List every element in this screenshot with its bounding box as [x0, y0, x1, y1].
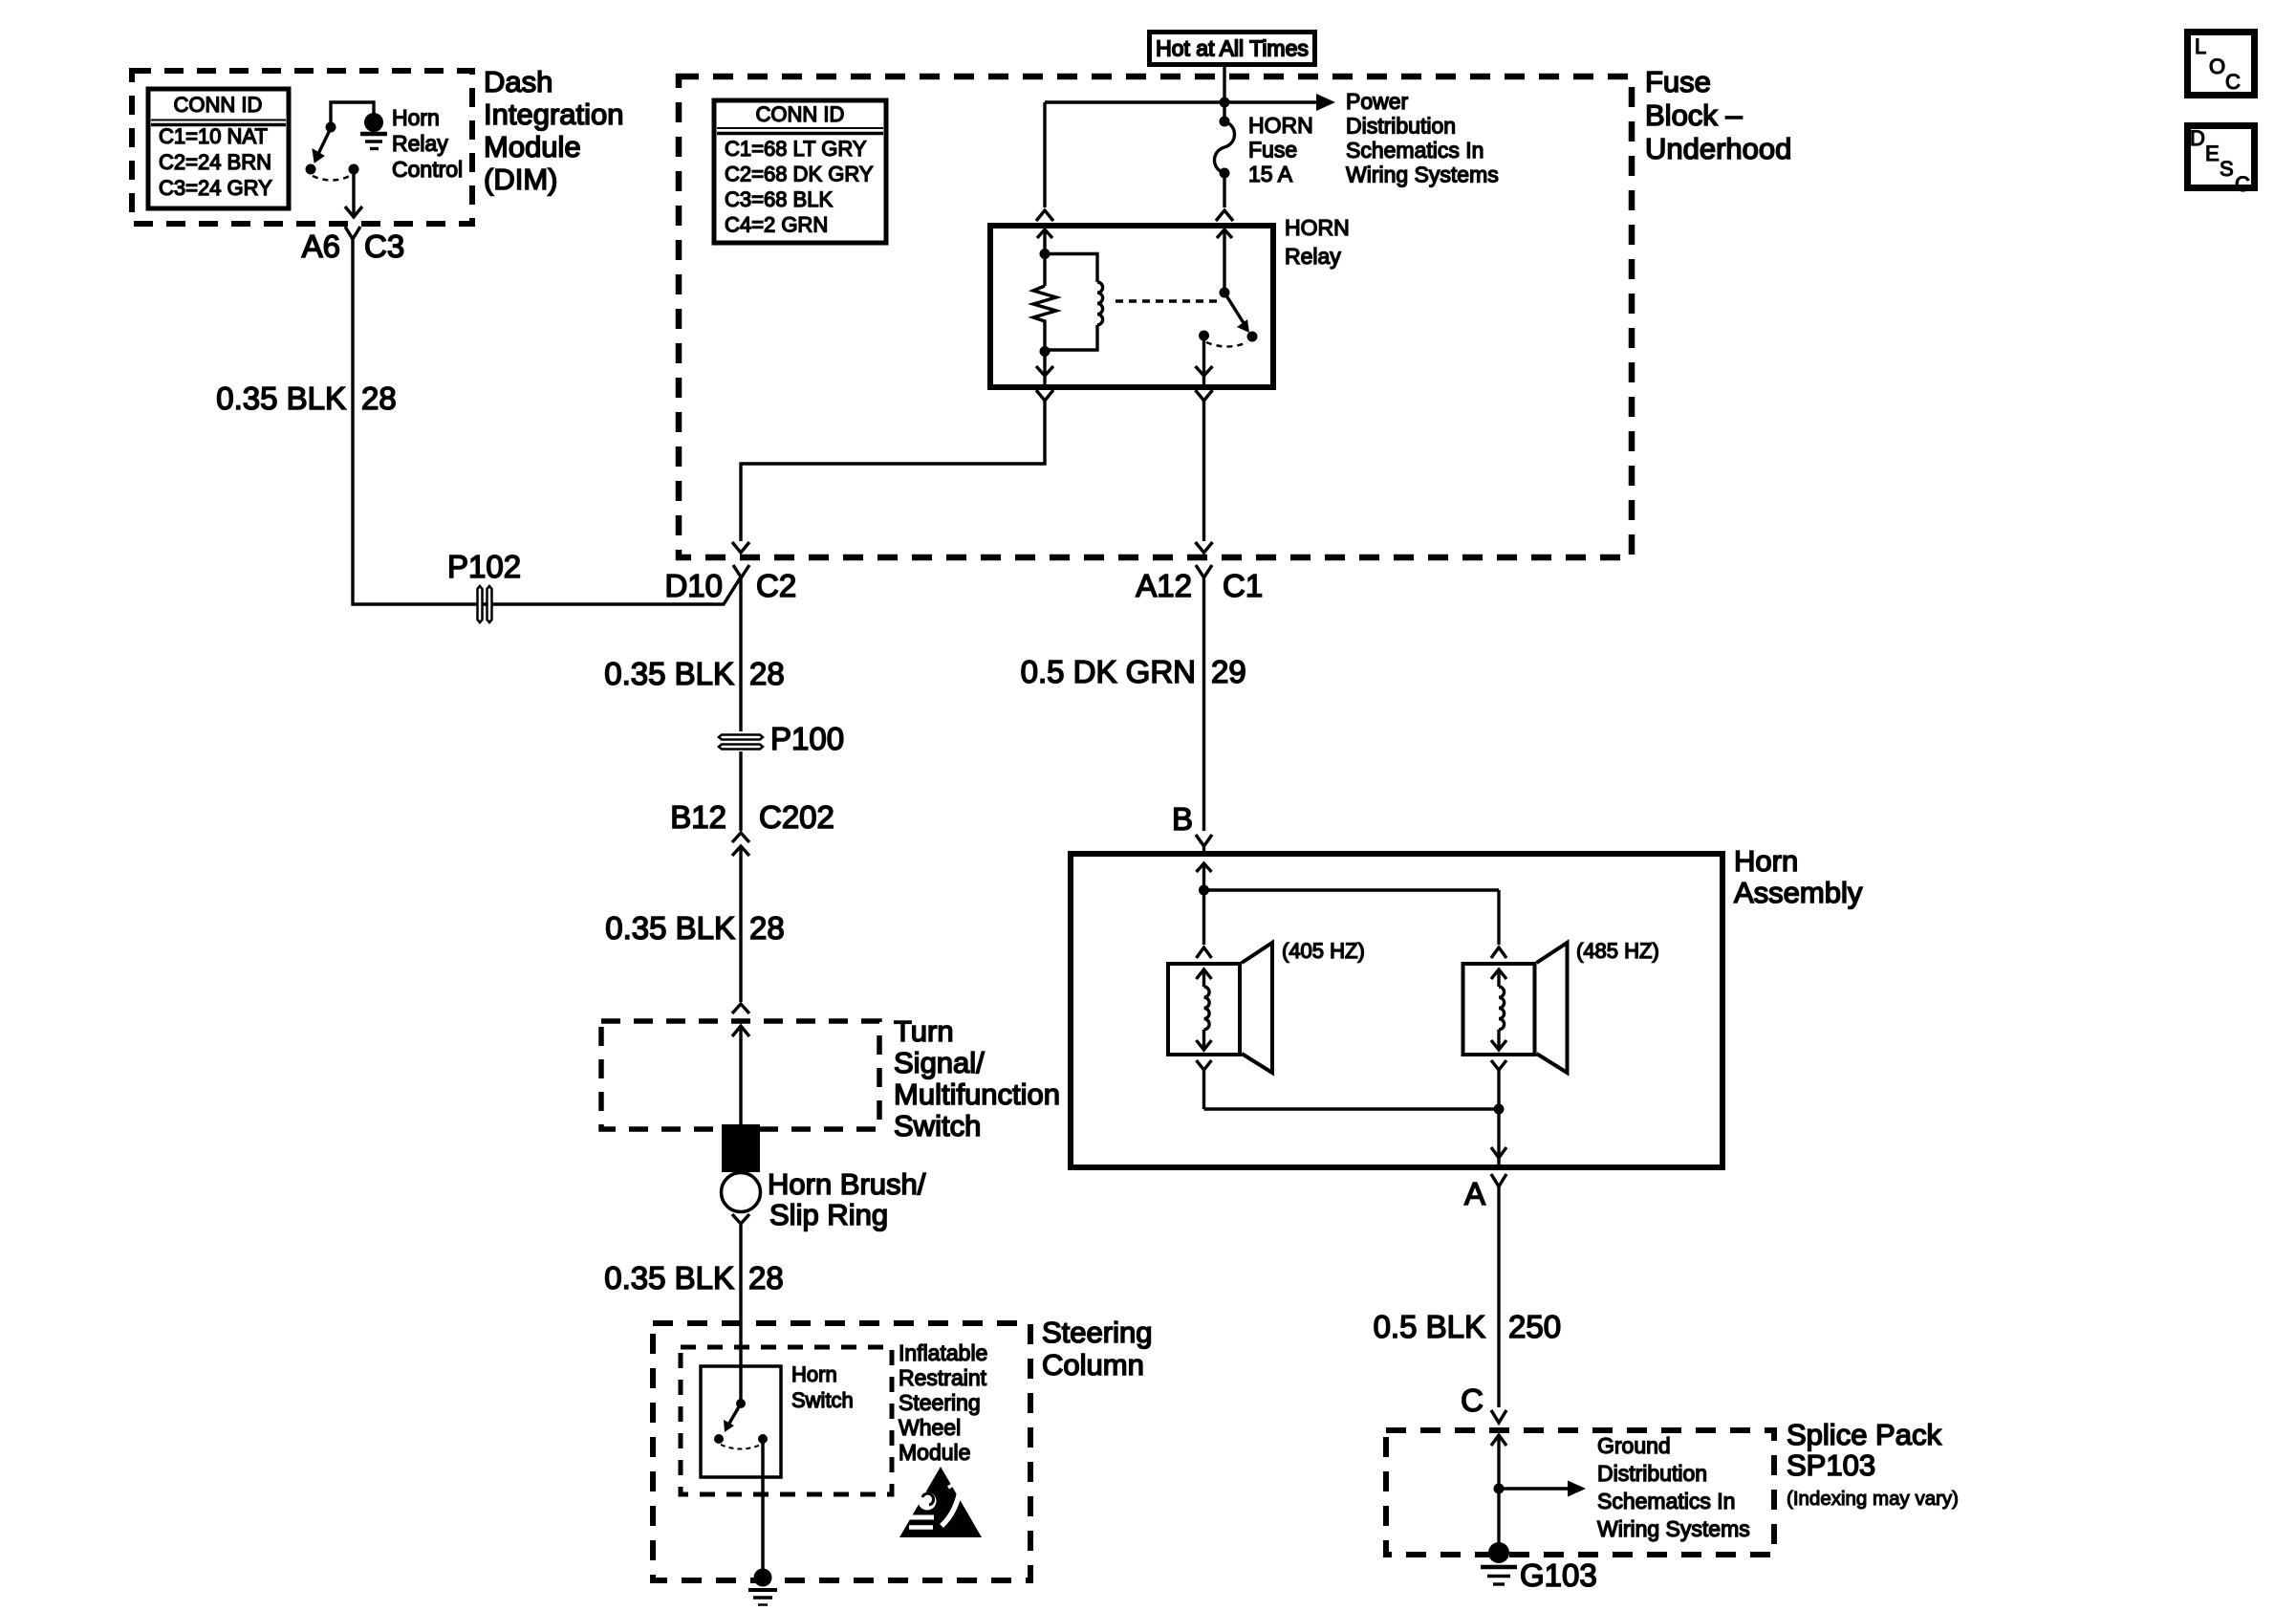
ground symbol G103 — [1481, 1567, 1517, 1584]
svg-text:C: C — [1461, 1382, 1484, 1418]
wire label 0.35 BLK 28 (column drop) — [604, 1260, 784, 1295]
svg-text:(DIM): (DIM) — [484, 163, 557, 196]
svg-text:(485 HZ): (485 HZ) — [1576, 939, 1659, 963]
svg-text:0.35 BLK: 0.35 BLK — [604, 1260, 734, 1295]
left horn driver box — [1168, 964, 1240, 1055]
svg-text:Assembly: Assembly — [1734, 876, 1863, 909]
horn switch arm arrowhead — [724, 1420, 734, 1432]
wire label 0.35 BLK 28 (C202 drop) — [605, 910, 785, 946]
connector B Y symbol — [1196, 835, 1212, 846]
svg-text:0.5 DK GRN: 0.5 DK GRN — [1021, 654, 1196, 689]
horn switch pivot dot — [736, 1399, 746, 1408]
chevron above right horn — [1491, 947, 1506, 958]
switch pivot dot — [326, 122, 336, 133]
relay junction dot bottom — [1040, 346, 1051, 357]
chevron below slip ring — [732, 1214, 749, 1224]
in-line connector P102 — [478, 586, 492, 622]
horn switch contact dot right — [758, 1434, 768, 1444]
wire: horizontal run to D10 — [352, 576, 743, 604]
chevron below relay left — [1036, 390, 1053, 401]
wire: C202 down to turn signal switch — [739, 846, 742, 1002]
power rail wire — [1045, 100, 1319, 103]
svg-text:28: 28 — [749, 656, 785, 691]
relay switch arm end dot — [1247, 332, 1258, 342]
Dash Integration Module (DIM) label — [484, 65, 624, 196]
svg-text:P102: P102 — [447, 549, 521, 584]
svg-text:0.5 BLK: 0.5 BLK — [1374, 1309, 1485, 1344]
svg-text:B: B — [1172, 801, 1193, 837]
svg-text:0.35 BLK: 0.35 BLK — [216, 381, 346, 416]
inflatable restraint warning triangle — [899, 1467, 982, 1537]
right horn wire bottom — [1497, 1030, 1500, 1050]
DIM CONN ID table text — [159, 93, 272, 200]
horn assembly input arrow — [1197, 863, 1212, 872]
ground terminal dot in DIM — [364, 113, 383, 132]
svg-text:CONN ID: CONN ID — [174, 93, 263, 117]
chevron above relay right — [1216, 210, 1233, 221]
svg-text:Module: Module — [484, 130, 581, 163]
HORN Relay label — [1285, 215, 1350, 269]
relay resistor zigzag — [1033, 286, 1056, 351]
Horn Assembly label — [1734, 844, 1863, 909]
arrow into fuse block border at D10 — [732, 542, 749, 553]
HORN relay box — [990, 226, 1273, 387]
relay coil — [1097, 282, 1103, 325]
svg-text:Underhood: Underhood — [1645, 132, 1791, 165]
right horn wire top — [1497, 969, 1500, 987]
svg-text:E: E — [2205, 142, 2220, 165]
svg-text:C1: C1 — [1223, 568, 1263, 603]
svg-text:28: 28 — [748, 1260, 784, 1295]
ground symbol (steering) — [748, 1590, 777, 1605]
relay junction dot top — [1040, 249, 1051, 259]
DESC letters — [2190, 126, 2250, 196]
Steering Column label — [1042, 1316, 1152, 1382]
horn relay control switch in DIM — [316, 102, 374, 158]
connector A12/C1 labels — [1136, 568, 1263, 603]
right horn driver box — [1463, 964, 1535, 1055]
left horn wire top — [1202, 969, 1205, 987]
chevron below relay right — [1196, 390, 1213, 401]
svg-text:B12: B12 — [670, 799, 726, 835]
svg-text:D: D — [2190, 126, 2205, 150]
Steering Column dashed box — [653, 1323, 1030, 1580]
relay actuation dashed link — [1116, 299, 1221, 302]
connector B12/C202 labels — [670, 799, 834, 835]
svg-text:Wiring Systems: Wiring Systems — [1346, 163, 1499, 187]
svg-text:Distribution: Distribution — [1597, 1461, 1707, 1486]
connector C202 arrow half — [732, 846, 749, 856]
svg-text:C3=68 BLK: C3=68 BLK — [725, 187, 833, 211]
wire: slip ring down to horn switch — [739, 1224, 742, 1404]
relay left input arrow — [1037, 229, 1052, 238]
svg-text:Horn Brush/: Horn Brush/ — [768, 1167, 926, 1201]
svg-text:Schematics In: Schematics In — [1346, 138, 1484, 163]
relay coil output wire with arrow — [1036, 352, 1053, 385]
connector A Y symbol — [1491, 1174, 1506, 1186]
left horn wire bottom — [1202, 1030, 1205, 1050]
left horn inner arrow top — [1197, 969, 1212, 979]
switch dashed arc — [313, 176, 350, 181]
svg-text:C1=68 LT GRY: C1=68 LT GRY — [725, 137, 867, 161]
wire: C2 down to P100 — [739, 577, 742, 731]
left horn bell trapezoid — [1242, 943, 1272, 1073]
switch arm arrowhead — [313, 149, 324, 163]
LOC letters — [2195, 34, 2241, 94]
ground dot G103 — [1488, 1542, 1509, 1563]
fuse block CONN ID table — [714, 100, 886, 243]
svg-text:Steering: Steering — [899, 1390, 981, 1415]
wire: left horn to bottom rail — [1202, 1070, 1205, 1109]
left horn coil — [1204, 987, 1210, 1030]
svg-text:C2=24 BRN: C2=24 BRN — [159, 150, 271, 174]
connector D10/C2 labels — [664, 568, 796, 603]
HORN fuse symbol — [1220, 117, 1230, 127]
svg-text:Control: Control — [392, 157, 463, 182]
svg-text:Distribution: Distribution — [1346, 114, 1456, 139]
Horn Relay Control label — [392, 105, 463, 182]
wire: down to right horn — [1497, 890, 1500, 945]
relay switch output wire with arrow — [1196, 336, 1213, 384]
relay switch arm — [1224, 293, 1245, 326]
relay switch feed wire — [1223, 229, 1225, 293]
HORN Fuse 15 A label — [1248, 113, 1313, 186]
svg-text:29: 29 — [1211, 654, 1246, 689]
wire: A down to splice pack — [1497, 1186, 1500, 1407]
svg-text:Slip Ring: Slip Ring — [769, 1198, 888, 1231]
arrow into fuse block border at A12 — [1196, 542, 1213, 553]
wire label 0.35 BLK 28 (DIM drop) — [216, 381, 397, 416]
svg-text:G103: G103 — [1520, 1557, 1597, 1593]
splice horizontal arrow wire — [1499, 1487, 1570, 1490]
svg-text:Module: Module — [899, 1440, 970, 1465]
right horn inner arrow top — [1491, 969, 1506, 979]
DIM module dashed box — [132, 71, 472, 224]
svg-text:Restraint: Restraint — [899, 1365, 987, 1390]
svg-text:S: S — [2220, 157, 2234, 181]
switch contact dot right — [349, 164, 359, 175]
svg-text:(405 HZ): (405 HZ) — [1282, 939, 1365, 963]
connector A6/C3 labels — [302, 229, 405, 264]
svg-text:28: 28 — [749, 910, 785, 946]
horn brush slip ring circle — [722, 1173, 761, 1212]
Splice Pack dashed box — [1386, 1430, 1774, 1555]
connector A12/C1 Y symbol — [1196, 565, 1212, 577]
Inflatable Restraint dashed box — [681, 1347, 892, 1494]
svg-text:Relay: Relay — [1285, 244, 1341, 269]
switch contact dot left — [306, 164, 316, 175]
chevron above relay left — [1036, 210, 1053, 221]
horn assembly bottom rail — [1204, 1107, 1500, 1110]
horn assembly junction dot top — [1199, 885, 1209, 896]
svg-text:C3: C3 — [364, 229, 404, 264]
svg-text:Switch: Switch — [894, 1109, 981, 1143]
right horn bell trapezoid — [1537, 943, 1568, 1073]
arrow inside splice pack — [1491, 1435, 1506, 1446]
svg-text:D10: D10 — [664, 568, 723, 603]
Splice Pack SP103 label — [1787, 1418, 1959, 1510]
chevron below left horn — [1197, 1060, 1212, 1070]
right horn inner arrow bottom — [1491, 1040, 1506, 1050]
svg-text:Splice Pack: Splice Pack — [1787, 1418, 1941, 1451]
relay switch dashed arc — [1206, 342, 1247, 347]
wire label 0.5 BLK 250 — [1374, 1309, 1561, 1344]
wire: A6/C3 down to corner — [351, 239, 354, 606]
LOC box — [2188, 33, 2255, 96]
svg-text:C: C — [2225, 70, 2241, 94]
svg-text:Multifunction: Multifunction — [894, 1078, 1060, 1111]
relay switch pivot dot — [1220, 288, 1230, 298]
wire: output down with arrow — [1491, 1109, 1506, 1165]
Ground Distribution label — [1597, 1433, 1750, 1541]
relay coil return — [1048, 325, 1097, 350]
wire label 0.5 DK GRN 29 — [1021, 654, 1246, 689]
svg-text:Switch: Switch — [791, 1388, 854, 1412]
power rail arrowhead — [1316, 94, 1335, 111]
Power Distribution label — [1346, 89, 1499, 187]
svg-text:Fuse: Fuse — [1645, 65, 1711, 98]
Horn Switch label — [791, 1362, 854, 1412]
svg-text:O: O — [2209, 54, 2225, 78]
chevron above left horn — [1197, 947, 1212, 958]
svg-text:Ground: Ground — [1597, 1433, 1671, 1458]
horn switch contact dot left — [714, 1434, 724, 1444]
svg-text:250: 250 — [1508, 1309, 1561, 1344]
svg-text:Turn: Turn — [894, 1014, 954, 1048]
wire: relay left output jog to D10 — [741, 401, 1045, 541]
wire: horn switch to ground — [761, 1439, 765, 1573]
Turn Signal/Multifunction Switch label — [894, 1014, 1060, 1143]
wire: splice pack vertical — [1497, 1435, 1500, 1553]
ground symbol in DIM — [360, 134, 387, 149]
svg-text:C4=2 GRN: C4=2 GRN — [725, 213, 828, 237]
connector D10/C2 Y symbol — [733, 565, 749, 577]
svg-text:L: L — [2195, 34, 2206, 58]
horn switch arm — [727, 1404, 741, 1426]
Turn Signal/Multifunction Switch dashed box — [601, 1021, 879, 1129]
svg-text:Block –: Block – — [1645, 98, 1743, 132]
svg-text:Schematics In: Schematics In — [1597, 1489, 1735, 1513]
svg-text:HORN: HORN — [1248, 113, 1313, 138]
svg-text:Horn: Horn — [1734, 844, 1798, 878]
Horn Brush / Slip Ring label — [768, 1167, 926, 1231]
svg-text:Wiring Systems: Wiring Systems — [1597, 1516, 1750, 1541]
Inflatable Restraint Steering Wheel Module label — [899, 1340, 987, 1465]
svg-text:Wheel: Wheel — [899, 1415, 961, 1440]
relay coil feed wire — [1043, 229, 1046, 286]
Hot at All Times box — [1150, 33, 1315, 65]
connector A6/C3 Y symbol — [345, 227, 360, 239]
ground dot G (steering) — [754, 1569, 772, 1587]
connector C Y symbol — [1491, 1410, 1506, 1423]
horn switch dashed arc — [721, 1445, 761, 1449]
svg-text:0.35 BLK: 0.35 BLK — [604, 656, 734, 691]
wire label 0.35 BLK 28 (C2 drop) — [604, 656, 785, 691]
wire: rail down to relay left input — [1043, 102, 1046, 207]
svg-text:Horn: Horn — [392, 105, 440, 130]
svg-text:C202: C202 — [759, 799, 834, 835]
svg-text:15 A: 15 A — [1248, 162, 1293, 186]
svg-text:A12: A12 — [1136, 568, 1192, 603]
arrow inside turn signal box — [732, 1026, 749, 1036]
svg-text:CONN ID: CONN ID — [756, 102, 845, 126]
svg-text:Relay: Relay — [392, 131, 448, 156]
svg-text:A: A — [1464, 1176, 1485, 1211]
right horn coil — [1499, 987, 1505, 1030]
relay right input arrow — [1217, 229, 1232, 238]
svg-text:C: C — [2235, 172, 2250, 196]
in-line connector P100 — [719, 735, 763, 750]
Horn Assembly box — [1071, 854, 1722, 1167]
connector C202 chevron — [732, 833, 749, 842]
svg-text:Dash: Dash — [484, 65, 552, 98]
svg-text:Power: Power — [1346, 89, 1409, 114]
wire: B into horn assembly — [1202, 846, 1205, 857]
relay switch arm arrowhead — [1237, 319, 1249, 333]
wire: C1 down to horn assembly — [1202, 577, 1205, 831]
svg-text:C1=10 NAT: C1=10 NAT — [159, 124, 268, 148]
Horn Switch box — [701, 1366, 781, 1477]
svg-text:HORN: HORN — [1285, 215, 1350, 240]
wire: P100 down to C202 — [739, 751, 742, 831]
DESC box — [2188, 126, 2255, 188]
svg-text:A6: A6 — [302, 229, 340, 264]
relay coil branch — [1045, 254, 1097, 283]
DIM CONN ID table — [148, 89, 289, 208]
svg-text:Inflatable: Inflatable — [899, 1340, 987, 1365]
wire: relay right output down to A12 — [1202, 401, 1205, 541]
svg-text:P100: P100 — [770, 721, 844, 756]
svg-text:Steering: Steering — [1042, 1316, 1152, 1349]
svg-text:28: 28 — [361, 381, 397, 416]
svg-text:Fuse: Fuse — [1248, 138, 1297, 163]
wire inside turn signal box — [739, 1026, 742, 1128]
wire: switch to DIM border with arrow — [345, 174, 362, 218]
svg-text:Signal/: Signal/ — [894, 1046, 985, 1079]
svg-text:Hot at All Times: Hot at All Times — [1156, 36, 1309, 61]
wire: fuse down to relay right input — [1223, 173, 1225, 207]
Fuse Block - Underhood label — [1645, 65, 1791, 165]
svg-text:C3=24 GRY: C3=24 GRY — [159, 176, 272, 200]
wire: junction across to right horn — [1204, 888, 1500, 891]
splice junction dot — [1494, 1484, 1505, 1494]
horn assembly junction dot bottom — [1494, 1104, 1505, 1115]
svg-text:(Indexing may vary): (Indexing may vary) — [1787, 1488, 1959, 1510]
chevron above turn signal box — [732, 1004, 749, 1013]
warning triangle airbag graphic — [907, 1482, 961, 1528]
splice arrowhead — [1568, 1481, 1586, 1497]
wire: right horn to bottom rail — [1497, 1070, 1500, 1109]
svg-text:C2: C2 — [756, 568, 796, 603]
svg-text:Integration: Integration — [484, 98, 624, 131]
svg-text:SP103: SP103 — [1787, 1448, 1875, 1482]
relay switch contact dot — [1199, 331, 1209, 341]
wire: input down to junction — [1202, 863, 1205, 945]
chevron below right horn — [1491, 1060, 1506, 1070]
svg-text:Horn: Horn — [791, 1362, 837, 1386]
svg-text:C2=68 DK GRY: C2=68 DK GRY — [725, 163, 874, 186]
wire: Hot at All Times down to power rail — [1223, 66, 1225, 121]
Fuse Block - Underhood dashed box — [679, 76, 1632, 557]
svg-text:0.35 BLK: 0.35 BLK — [605, 910, 735, 946]
svg-text:Column: Column — [1042, 1348, 1144, 1382]
power rail junction dot — [1220, 98, 1230, 108]
fuse block CONN ID text — [725, 102, 874, 237]
left horn inner arrow bottom — [1197, 1040, 1212, 1050]
horn brush contact block — [722, 1124, 760, 1172]
